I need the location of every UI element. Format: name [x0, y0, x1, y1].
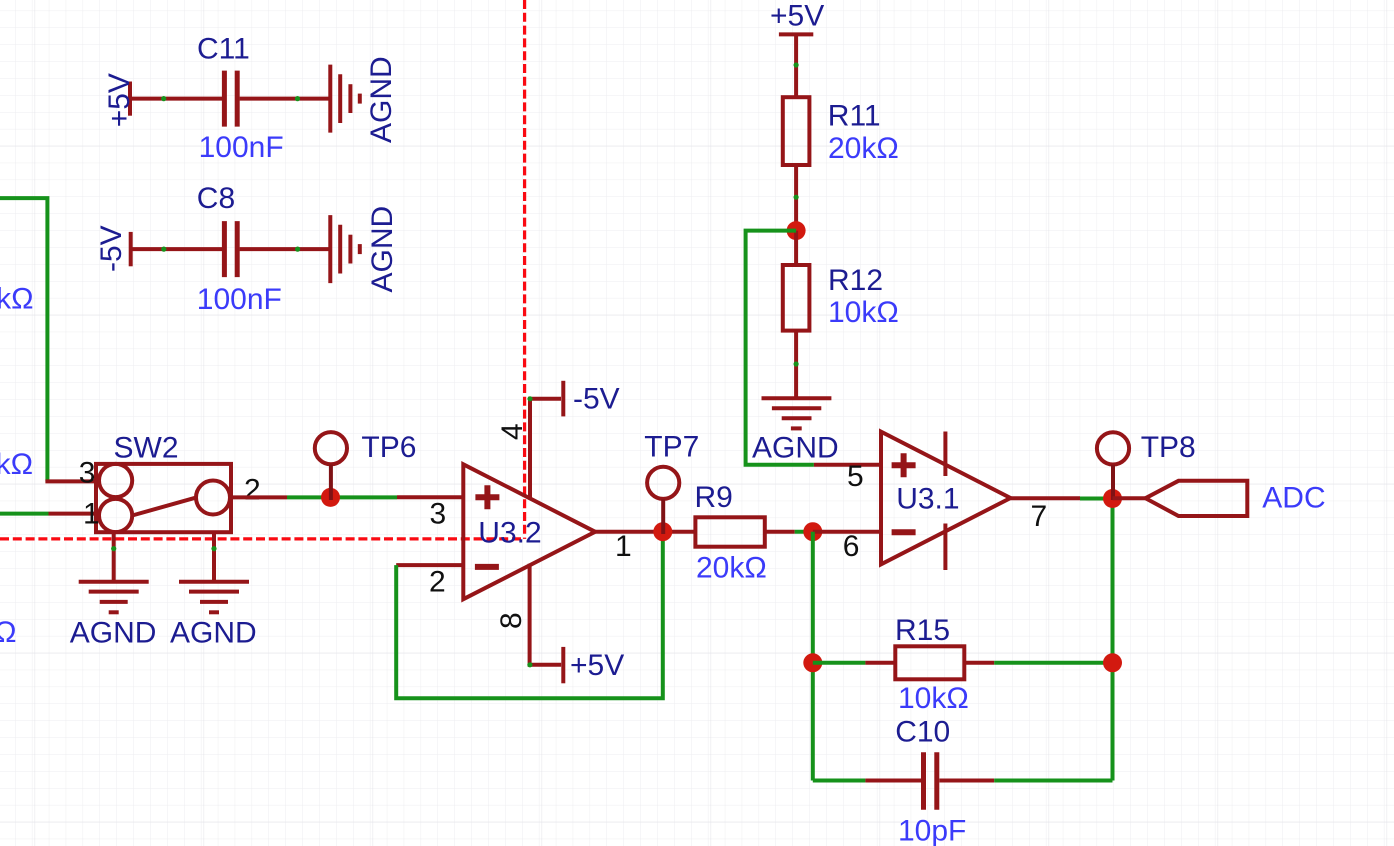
C10 right pin: [939, 779, 994, 783]
svg-text:C8: C8: [197, 182, 235, 215]
port ADC: [1146, 481, 1248, 516]
junction node R15 left: [803, 653, 822, 672]
wire +5V to C11: [130, 97, 222, 101]
svg-text:4: 4: [496, 423, 529, 440]
svg-text:7: 7: [1031, 500, 1048, 533]
svg-text:AGND: AGND: [366, 206, 399, 293]
svg-text:8: 8: [495, 612, 528, 629]
R15 right pin: [964, 661, 994, 665]
svg-text:1: 1: [615, 530, 632, 563]
svg-text:10kΩ: 10kΩ: [0, 616, 17, 649]
TP7 stem: [661, 499, 665, 534]
wire pin6 node down to feedback: [811, 532, 815, 781]
junction node TP7: [653, 522, 672, 541]
SW2 ground stem left: [112, 532, 116, 582]
SW2 contact circle pin3: [99, 464, 132, 497]
svg-text:3: 3: [79, 457, 96, 490]
svg-text:20kΩ: 20kΩ: [0, 448, 33, 481]
svg-text:TP8: TP8: [1141, 431, 1196, 464]
svg-text:TP6: TP6: [361, 431, 416, 464]
svg-text:U3.1: U3.1: [896, 482, 959, 515]
svg-text:10kΩ: 10kΩ: [828, 296, 899, 329]
power port +5V bar (U3.2): [561, 647, 565, 683]
power port -5V bar (U3.2): [561, 381, 565, 417]
switch SW2 body: [96, 464, 231, 532]
ground AGND (SW2 left): [79, 582, 149, 613]
test point TP6: [315, 432, 347, 464]
junction node TP8: [1103, 489, 1122, 508]
SW2 pin 3: [45, 479, 96, 483]
TP8 stem: [1111, 465, 1115, 500]
resistor R11: [783, 97, 810, 165]
sheet boundary dashed line horizontal: [0, 537, 525, 540]
wire +5V to R11: [794, 34, 798, 97]
U3.2 pin 2: [396, 563, 463, 567]
svg-text:1: 1: [83, 498, 100, 531]
feedback wire U3.2 output to pin 2: [396, 532, 663, 699]
svg-text:TP7: TP7: [644, 431, 699, 464]
U3.2 minus mark: [475, 564, 499, 570]
svg-text:R9: R9: [695, 481, 733, 514]
junction node R15 right: [1103, 653, 1122, 672]
ground AGND (R12): [762, 398, 832, 428]
test point TP7: [647, 467, 679, 499]
svg-text:C11: C11: [197, 33, 250, 66]
U3.2 plus mark: [475, 485, 499, 509]
svg-text:6: 6: [843, 530, 860, 563]
U3.1 power stub top: [943, 432, 947, 477]
U3.1 pin 7 output: [1011, 496, 1081, 500]
green dot: [161, 96, 166, 101]
svg-text:R15: R15: [895, 614, 950, 647]
U3.2 pin 8 wire to +5V: [530, 564, 562, 665]
wire C11 to AGND: [240, 97, 330, 101]
green dot: [794, 195, 799, 200]
power port +5V bar (C11): [128, 82, 132, 116]
green dot: [161, 247, 166, 252]
svg-text:+5V: +5V: [770, 0, 824, 32]
wire pin 7 to TP8 node: [1080, 497, 1113, 501]
green dot: [527, 662, 532, 667]
wire node to R12: [794, 231, 798, 265]
wire -5V to C8: [131, 247, 222, 251]
wire R9 to U3.1 pin 6: [795, 530, 813, 534]
svg-text:2: 2: [244, 474, 261, 507]
green dot: [111, 546, 116, 551]
R15 left pin: [865, 661, 895, 665]
green dot: [295, 247, 300, 252]
capacitor C11: [224, 71, 237, 127]
capacitor C8: [224, 221, 237, 277]
wire node to pin5 (horizontal at junction): [746, 231, 814, 465]
capacitor C10: [924, 752, 937, 809]
wire C8 to AGND: [240, 247, 331, 251]
svg-text:20kΩ: 20kΩ: [828, 132, 899, 165]
svg-text:AGND: AGND: [752, 431, 839, 464]
green dot: [794, 361, 799, 366]
svg-text:AGND: AGND: [170, 616, 257, 649]
resistor R9: [695, 517, 764, 546]
svg-text:AGND: AGND: [70, 616, 157, 649]
wire C10 to right side: [994, 779, 1112, 783]
wire in from left (top): [0, 198, 47, 481]
svg-text:U3.2: U3.2: [478, 516, 541, 549]
sheet boundary dashed line vertical: [523, 0, 526, 539]
svg-text:AGND: AGND: [365, 56, 398, 143]
junction node TP6: [321, 488, 340, 507]
TP6 stem: [329, 465, 333, 500]
svg-text:2: 2: [429, 566, 446, 599]
wire R12 to AGND: [794, 331, 798, 399]
green dot: [295, 96, 300, 101]
C10 left pin: [865, 779, 921, 783]
op-amp U3.1: [881, 432, 1011, 565]
ground AGND (C11): [330, 65, 360, 133]
green dot: [211, 546, 216, 551]
svg-text:10pF: 10pF: [898, 815, 966, 846]
svg-text:3: 3: [430, 497, 447, 530]
ground AGND (SW2 right): [179, 582, 249, 613]
svg-text:100nF: 100nF: [199, 131, 284, 164]
R9 right pin: [765, 530, 795, 534]
resistor R15: [895, 646, 964, 679]
wire TP8 node down right side: [1111, 499, 1115, 781]
green dot: [527, 396, 532, 401]
svg-text:20kΩ: 20kΩ: [0, 283, 34, 316]
SW2 contact circle pin2: [196, 481, 230, 515]
svg-text:20kΩ: 20kΩ: [696, 552, 767, 585]
wire to R15: [813, 661, 866, 665]
junction node pin 6: [803, 522, 822, 541]
svg-text:+5V: +5V: [570, 649, 624, 682]
U3.2 pin 4 wire to -5V: [530, 399, 561, 500]
power port -5V bar (C8): [129, 232, 133, 266]
svg-text:SW2: SW2: [114, 432, 179, 465]
svg-text:100nF: 100nF: [197, 283, 282, 316]
svg-text:-5V: -5V: [573, 383, 620, 416]
green dot: [794, 62, 799, 67]
SW2 ground stem right: [212, 532, 216, 582]
U3.2 pin 3: [397, 495, 463, 499]
U3.1 minus mark: [892, 529, 916, 535]
svg-text:5: 5: [847, 460, 864, 493]
resistor R12: [783, 265, 810, 331]
wire feedback bottom left to C10: [813, 779, 866, 783]
wire R11 to node: [794, 165, 798, 231]
svg-text:-5V: -5V: [95, 225, 128, 272]
wire node to ADC port: [1113, 496, 1147, 500]
svg-text:R11: R11: [828, 99, 881, 132]
power port +5V (R11 top): [779, 32, 813, 36]
U3.1 pin 5: [814, 463, 881, 467]
wire R15 to right side: [994, 661, 1112, 665]
svg-text:ADC: ADC: [1262, 482, 1325, 515]
op-amp U3.2: [463, 464, 595, 599]
test point TP8: [1097, 432, 1129, 464]
wire SW2 to U3.2 pin 3: [287, 495, 397, 499]
SW2 contact circle pin1: [99, 499, 132, 532]
SW2 pin 2: [231, 495, 287, 499]
U3.1 power stub bottom: [943, 524, 947, 571]
U3.1 plus mark: [892, 453, 916, 477]
svg-text:R12: R12: [828, 264, 883, 297]
junction node R11/R12: [787, 221, 806, 240]
U3.1 pin 6: [813, 530, 881, 534]
svg-text:C10: C10: [895, 716, 950, 749]
SW2 pin 1: [49, 512, 97, 516]
U3.2 pin 1 output: [595, 530, 695, 534]
ground AGND (C8): [330, 215, 360, 283]
wire in from left (pin 1): [0, 512, 49, 516]
svg-text:10kΩ: 10kΩ: [898, 682, 969, 715]
SW2 blade: [132, 498, 196, 516]
